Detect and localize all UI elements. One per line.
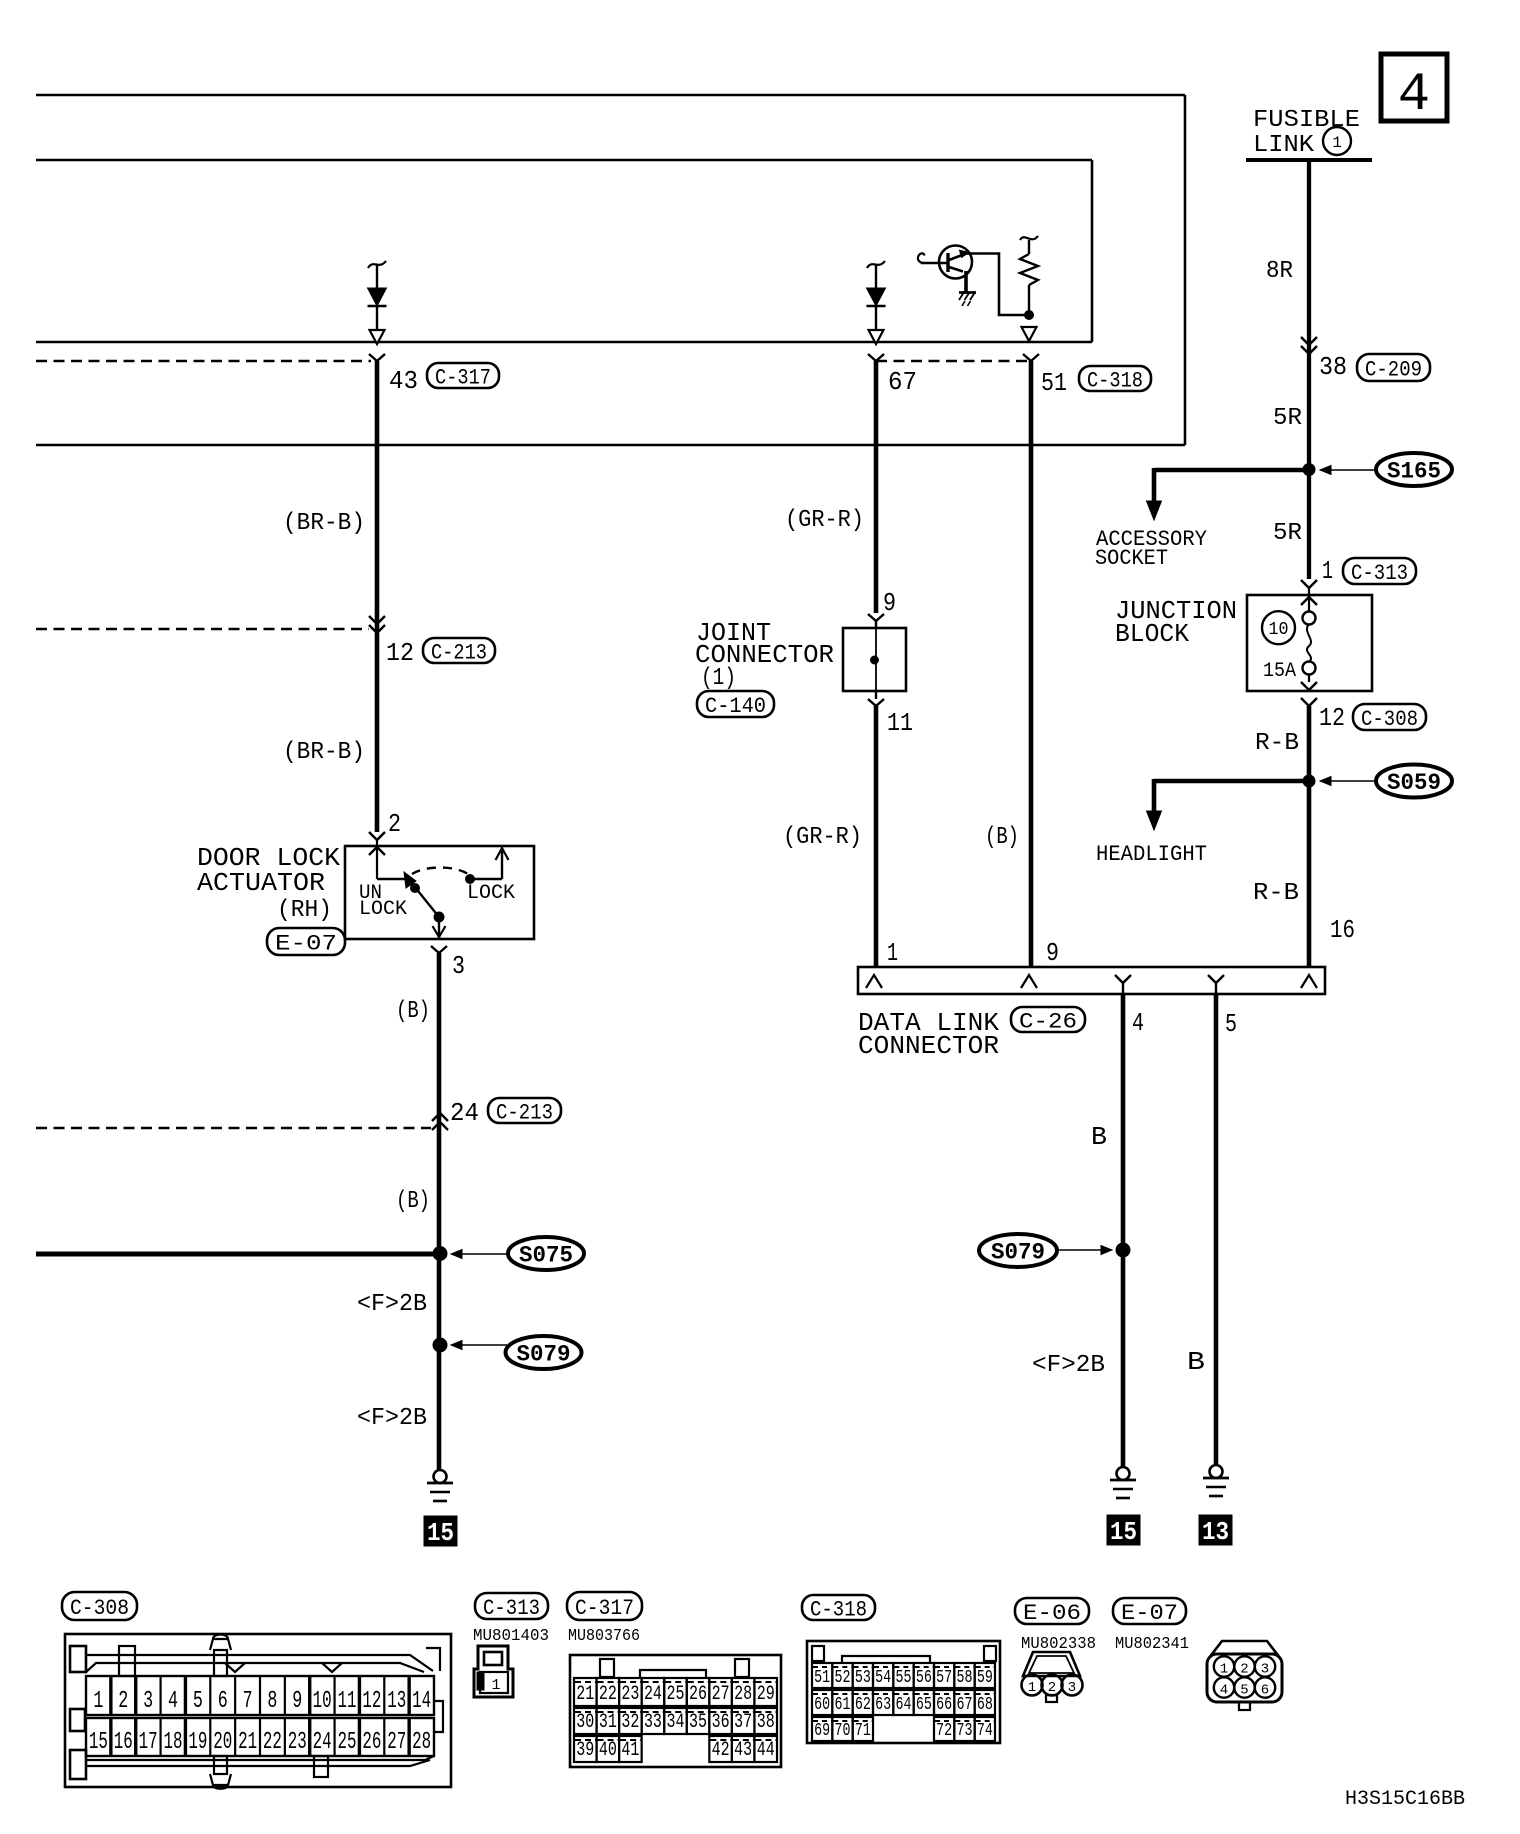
svg-text:C-317: C-317 bbox=[575, 1596, 634, 1621]
svg-text:<F>2B: <F>2B bbox=[357, 1291, 427, 1318]
svg-text:20: 20 bbox=[213, 1729, 232, 1756]
svg-text:S059: S059 bbox=[1387, 770, 1441, 796]
svg-text:32: 32 bbox=[621, 1711, 639, 1734]
svg-text:1: 1 bbox=[1220, 1662, 1228, 1678]
svg-text:11: 11 bbox=[338, 1688, 357, 1715]
svg-text:5R: 5R bbox=[1273, 405, 1302, 432]
svg-text:67: 67 bbox=[957, 1695, 973, 1715]
svg-text:15: 15 bbox=[1110, 1517, 1137, 1547]
svg-text:(GR-R): (GR-R) bbox=[785, 507, 864, 534]
svg-text:24: 24 bbox=[450, 1098, 479, 1128]
svg-text:C-313: C-313 bbox=[1351, 561, 1408, 586]
svg-text:4: 4 bbox=[1220, 1683, 1228, 1699]
svg-text:38: 38 bbox=[1319, 352, 1347, 382]
svg-text:5R: 5R bbox=[1273, 520, 1302, 547]
svg-text:51: 51 bbox=[814, 1668, 830, 1688]
svg-text:51: 51 bbox=[1041, 368, 1067, 398]
svg-text:C-308: C-308 bbox=[70, 1596, 129, 1621]
svg-text:B: B bbox=[1091, 1122, 1107, 1152]
svg-text:60: 60 bbox=[814, 1695, 830, 1715]
svg-text:4: 4 bbox=[1398, 65, 1430, 126]
svg-text:61: 61 bbox=[835, 1695, 851, 1715]
svg-text:52: 52 bbox=[835, 1668, 851, 1688]
svg-text:17: 17 bbox=[139, 1729, 158, 1756]
svg-text:2: 2 bbox=[1240, 1662, 1248, 1678]
svg-text:14: 14 bbox=[412, 1688, 431, 1715]
svg-text:(B): (B) bbox=[396, 998, 430, 1025]
svg-text:12: 12 bbox=[386, 638, 414, 668]
svg-text:22: 22 bbox=[263, 1729, 282, 1756]
svg-text:43: 43 bbox=[734, 1739, 752, 1762]
svg-text:21: 21 bbox=[238, 1729, 257, 1756]
svg-text:1: 1 bbox=[491, 1677, 500, 1694]
svg-text:24: 24 bbox=[644, 1683, 662, 1706]
svg-text:BLOCK: BLOCK bbox=[1115, 619, 1189, 649]
svg-text:MU802338: MU802338 bbox=[1021, 1634, 1096, 1653]
svg-text:3: 3 bbox=[1068, 1680, 1076, 1696]
svg-text:31: 31 bbox=[599, 1711, 617, 1734]
svg-text:4: 4 bbox=[168, 1688, 178, 1715]
svg-text:25: 25 bbox=[338, 1729, 357, 1756]
svg-text:12: 12 bbox=[362, 1688, 381, 1715]
svg-text:5: 5 bbox=[193, 1688, 203, 1715]
svg-text:4: 4 bbox=[1132, 1008, 1144, 1038]
svg-text:MU802341: MU802341 bbox=[1115, 1634, 1189, 1653]
svg-text:63: 63 bbox=[875, 1695, 891, 1715]
svg-text:(GR-R): (GR-R) bbox=[783, 824, 862, 851]
svg-text:74: 74 bbox=[977, 1721, 993, 1741]
svg-text:22: 22 bbox=[599, 1683, 617, 1706]
svg-text:C-209: C-209 bbox=[1365, 357, 1422, 382]
svg-text:15: 15 bbox=[427, 1518, 454, 1548]
svg-text:S079: S079 bbox=[991, 1240, 1045, 1266]
svg-text:C-318: C-318 bbox=[810, 1597, 867, 1622]
svg-text:35: 35 bbox=[689, 1711, 707, 1734]
svg-text:27: 27 bbox=[387, 1729, 406, 1756]
svg-text:ACTUATOR: ACTUATOR bbox=[197, 868, 325, 898]
svg-text:29: 29 bbox=[757, 1683, 775, 1706]
svg-text:21: 21 bbox=[576, 1683, 594, 1706]
svg-text:73: 73 bbox=[957, 1721, 973, 1741]
svg-text:MU801403: MU801403 bbox=[473, 1626, 549, 1645]
svg-text:67: 67 bbox=[888, 367, 917, 397]
svg-text:13: 13 bbox=[1202, 1517, 1229, 1547]
svg-text:9: 9 bbox=[292, 1688, 302, 1715]
svg-text:3: 3 bbox=[452, 951, 465, 981]
svg-text:(RH): (RH) bbox=[277, 897, 332, 924]
svg-text:7: 7 bbox=[243, 1688, 253, 1715]
svg-text:36: 36 bbox=[712, 1711, 730, 1734]
svg-text:<F>2B: <F>2B bbox=[1032, 1352, 1105, 1379]
svg-text:MU803766: MU803766 bbox=[568, 1626, 640, 1645]
svg-text:E-06: E-06 bbox=[1023, 1601, 1081, 1626]
svg-text:C-313: C-313 bbox=[483, 1596, 540, 1621]
svg-text:58: 58 bbox=[957, 1668, 973, 1688]
svg-text:S079: S079 bbox=[517, 1342, 571, 1368]
svg-text:41: 41 bbox=[621, 1739, 639, 1762]
svg-text:34: 34 bbox=[667, 1711, 685, 1734]
svg-text:57: 57 bbox=[936, 1668, 952, 1688]
svg-text:6: 6 bbox=[1261, 1683, 1269, 1699]
svg-text:19: 19 bbox=[188, 1729, 207, 1756]
svg-text:C-140: C-140 bbox=[705, 694, 766, 719]
svg-text:64: 64 bbox=[896, 1695, 912, 1715]
svg-text:23: 23 bbox=[288, 1729, 307, 1756]
svg-text:13: 13 bbox=[387, 1688, 406, 1715]
svg-text:26: 26 bbox=[362, 1729, 381, 1756]
svg-text:39: 39 bbox=[576, 1739, 594, 1762]
svg-text:12: 12 bbox=[1319, 703, 1345, 733]
svg-text:28: 28 bbox=[412, 1729, 431, 1756]
svg-text:1: 1 bbox=[1028, 1680, 1036, 1696]
svg-text:59: 59 bbox=[977, 1668, 993, 1688]
svg-text:1: 1 bbox=[1322, 556, 1333, 586]
svg-text:27: 27 bbox=[712, 1683, 730, 1706]
svg-text:18: 18 bbox=[164, 1729, 183, 1756]
svg-text:69: 69 bbox=[814, 1721, 830, 1741]
svg-text:37: 37 bbox=[734, 1711, 752, 1734]
svg-text:33: 33 bbox=[644, 1711, 662, 1734]
svg-text:40: 40 bbox=[599, 1739, 617, 1762]
svg-text:2: 2 bbox=[1048, 1680, 1056, 1696]
svg-text:9: 9 bbox=[883, 588, 896, 618]
svg-text:42: 42 bbox=[712, 1739, 730, 1762]
svg-text:72: 72 bbox=[936, 1721, 952, 1741]
svg-text:2: 2 bbox=[118, 1688, 128, 1715]
svg-text:C-213: C-213 bbox=[431, 640, 487, 665]
svg-text:C-308: C-308 bbox=[1361, 707, 1418, 732]
svg-text:6: 6 bbox=[218, 1688, 228, 1715]
svg-text:R-B: R-B bbox=[1253, 880, 1299, 907]
svg-text:56: 56 bbox=[916, 1668, 932, 1688]
svg-text:15: 15 bbox=[89, 1729, 108, 1756]
svg-text:53: 53 bbox=[855, 1668, 871, 1688]
svg-text:(B): (B) bbox=[396, 1188, 430, 1215]
svg-text:10: 10 bbox=[313, 1688, 332, 1715]
svg-text:30: 30 bbox=[576, 1711, 594, 1734]
svg-text:<F>2B: <F>2B bbox=[357, 1405, 427, 1432]
svg-text:15A: 15A bbox=[1263, 660, 1296, 683]
svg-text:E-07: E-07 bbox=[275, 931, 337, 956]
svg-text:16: 16 bbox=[114, 1729, 133, 1756]
svg-text:1: 1 bbox=[1332, 134, 1342, 152]
svg-text:H3S15C16BB: H3S15C16BB bbox=[1345, 1788, 1465, 1811]
svg-text:LOCK: LOCK bbox=[467, 882, 515, 905]
svg-text:S075: S075 bbox=[519, 1243, 573, 1269]
svg-text:CONNECTOR: CONNECTOR bbox=[858, 1031, 999, 1061]
svg-text:65: 65 bbox=[916, 1695, 932, 1715]
svg-text:8R: 8R bbox=[1266, 258, 1293, 285]
svg-text:24: 24 bbox=[313, 1729, 332, 1756]
svg-text:2: 2 bbox=[388, 809, 401, 839]
svg-text:8: 8 bbox=[267, 1688, 277, 1715]
svg-text:C-213: C-213 bbox=[496, 1100, 553, 1125]
svg-text:16: 16 bbox=[1330, 915, 1355, 945]
svg-text:(1): (1) bbox=[701, 665, 736, 692]
svg-text:71: 71 bbox=[855, 1721, 871, 1741]
svg-text:54: 54 bbox=[875, 1668, 891, 1688]
svg-text:70: 70 bbox=[835, 1721, 851, 1741]
svg-text:25: 25 bbox=[667, 1683, 685, 1706]
svg-text:1: 1 bbox=[93, 1688, 103, 1715]
svg-text:(BR-B): (BR-B) bbox=[283, 739, 365, 766]
svg-text:9: 9 bbox=[1046, 938, 1059, 968]
svg-text:(B): (B) bbox=[985, 824, 1019, 851]
svg-text:62: 62 bbox=[855, 1695, 871, 1715]
svg-text:5: 5 bbox=[1240, 1683, 1248, 1699]
svg-text:S165: S165 bbox=[1387, 459, 1441, 485]
svg-text:38: 38 bbox=[757, 1711, 775, 1734]
svg-text:LINK: LINK bbox=[1253, 132, 1315, 159]
svg-text:68: 68 bbox=[977, 1695, 993, 1715]
svg-text:LOCK: LOCK bbox=[359, 898, 407, 921]
svg-text:C-318: C-318 bbox=[1087, 368, 1143, 393]
svg-text:B: B bbox=[1187, 1347, 1205, 1377]
svg-text:R-B: R-B bbox=[1255, 730, 1299, 757]
svg-text:28: 28 bbox=[734, 1683, 752, 1706]
svg-text:44: 44 bbox=[757, 1739, 775, 1762]
svg-text:C-317: C-317 bbox=[435, 365, 491, 390]
svg-text:HEADLIGHT: HEADLIGHT bbox=[1096, 842, 1207, 867]
svg-text:26: 26 bbox=[689, 1683, 707, 1706]
svg-text:11: 11 bbox=[887, 708, 913, 738]
svg-text:E-07: E-07 bbox=[1121, 1601, 1178, 1626]
svg-text:SOCKET: SOCKET bbox=[1095, 546, 1168, 571]
svg-text:43: 43 bbox=[389, 366, 418, 396]
svg-text:5: 5 bbox=[1225, 1009, 1237, 1039]
svg-text:C-26: C-26 bbox=[1019, 1009, 1077, 1034]
svg-text:(BR-B): (BR-B) bbox=[283, 510, 365, 537]
svg-text:55: 55 bbox=[896, 1668, 912, 1688]
svg-text:10: 10 bbox=[1269, 620, 1289, 640]
svg-text:1: 1 bbox=[887, 938, 898, 968]
svg-text:3: 3 bbox=[1261, 1662, 1269, 1678]
svg-text:66: 66 bbox=[936, 1695, 952, 1715]
svg-text:3: 3 bbox=[143, 1688, 153, 1715]
svg-text:23: 23 bbox=[621, 1683, 639, 1706]
